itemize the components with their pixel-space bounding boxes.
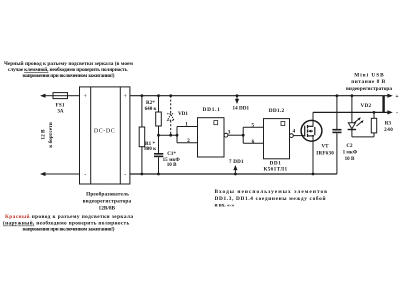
svg-text:DC-DC: DC-DC xyxy=(94,129,115,135)
node C1 bottom xyxy=(157,173,160,176)
label C1 15uF 10V xyxy=(163,151,181,168)
svg-text:6: 6 xyxy=(252,139,255,145)
fuse FS1 xyxy=(53,93,68,99)
node R1 bottom xyxy=(141,173,144,176)
wire gate to transistor xyxy=(293,135,305,137)
node 14 DD1 xyxy=(236,94,239,97)
svg-text:Mini USB: Mini USB xyxy=(354,73,384,79)
node RC xyxy=(157,134,160,137)
DC-DC converter module U1 xyxy=(80,87,130,184)
svg-text:Красный провод к разъему подсв: Красный провод к разъему подсветки зерка… xyxy=(5,213,133,220)
svg-text:+: + xyxy=(84,94,88,100)
node gate input join xyxy=(176,134,179,137)
svg-text:240: 240 xyxy=(384,127,393,133)
svg-text:7 DD1: 7 DD1 xyxy=(229,159,244,165)
node VD1 cathode xyxy=(169,94,172,97)
wire left bottom with arrow xyxy=(40,172,80,176)
svg-text:4: 4 xyxy=(292,128,295,134)
node R1 top xyxy=(141,94,144,97)
resistor R3 xyxy=(371,112,376,136)
svg-text:800 к: 800 к xyxy=(144,146,156,152)
svg-text:-: - xyxy=(124,173,126,179)
svg-text:VD2: VD2 xyxy=(361,103,372,109)
svg-text:DD1: DD1 xyxy=(270,160,282,166)
label DC-DC xyxy=(94,129,115,135)
svg-text:Входы неиспользуемых элемент: Входы неиспользуемых элементов xyxy=(215,189,328,195)
svg-text:+: + xyxy=(124,94,128,100)
svg-text:R3: R3 xyxy=(385,121,392,127)
wire drain to minus rail xyxy=(313,110,393,126)
svg-text:(наружный, необходимо проверит: (наружный, необходимо проверить полярнос… xyxy=(3,220,129,227)
svg-text:VD1: VD1 xyxy=(178,111,188,117)
node DD1.2 input join xyxy=(242,134,245,137)
note top-left xyxy=(4,60,133,79)
LED VD2 xyxy=(348,96,364,137)
wire LED to R3 xyxy=(352,136,374,138)
diode VD1 (dashed, optional) xyxy=(170,96,172,136)
svg-text:C2: C2 xyxy=(346,143,353,149)
note unused gates xyxy=(215,189,328,208)
node R2 top xyxy=(157,94,160,97)
wire bottom rail xyxy=(130,173,337,175)
svg-text:12В/8В: 12В/8В xyxy=(99,205,116,211)
svg-text:1: 1 xyxy=(185,121,188,127)
label R3 240 xyxy=(384,121,393,133)
capacitor C2 xyxy=(332,96,341,174)
logic gate DD1.1 (Schmitt NAND) xyxy=(198,118,228,157)
svg-text:к бортсети: к бортсети xyxy=(47,122,54,148)
note mini USB output xyxy=(346,73,392,92)
svg-text:DD1.2: DD1.2 xyxy=(269,108,285,114)
label C2 1uF 10V xyxy=(343,143,358,162)
resistor R2 xyxy=(156,96,162,136)
power pin 7 DD1 stub xyxy=(233,165,237,174)
wire node RC to gate inputs xyxy=(159,127,198,143)
svg-text:10 В: 10 В xyxy=(167,162,177,168)
wire source to ground rail xyxy=(312,136,314,174)
svg-text:Преобразователь: Преобразователь xyxy=(86,190,129,197)
capacitor C1 xyxy=(154,135,163,174)
svg-text:напряжения при включенном зажи: напряжения при включенном зажигании!) xyxy=(23,226,115,233)
label 12V to board net (rotated) xyxy=(40,122,54,148)
label R1 800k xyxy=(144,141,156,152)
svg-text:К561ТЛ1: К561ТЛ1 xyxy=(264,167,288,173)
svg-text:случае клеммной, необходимо пр: случае клеммной, необходимо проверить по… xyxy=(8,66,128,73)
label DD1 K561TL1 xyxy=(264,160,288,172)
svg-text:+: + xyxy=(395,94,399,100)
resistor R1 xyxy=(139,96,145,174)
svg-text:видеорегистратора: видеорегистратора xyxy=(346,86,392,92)
svg-text:видеорегистратора: видеорегистратора xyxy=(83,198,132,204)
svg-text:3: 3 xyxy=(228,129,231,135)
node C2 top xyxy=(336,94,339,97)
svg-text:VT: VT xyxy=(321,144,329,150)
node source xyxy=(312,173,315,176)
svg-text:12 В: 12 В xyxy=(40,129,46,140)
svg-text:14 DD1: 14 DD1 xyxy=(233,105,250,111)
svg-text:-: - xyxy=(396,110,398,116)
wire top rail +8V xyxy=(130,94,393,98)
svg-text:напряжения при включенном зажи: напряжения при включенном зажигании!) xyxy=(23,72,115,79)
label R2 640k xyxy=(145,100,157,112)
svg-text:5: 5 xyxy=(251,122,254,128)
svg-text:1 мкФ: 1 мкФ xyxy=(343,150,358,156)
svg-text:640 к: 640 к xyxy=(145,106,157,112)
node R3 top xyxy=(373,111,376,114)
svg-text:3А: 3А xyxy=(57,109,64,115)
svg-text:и вх. «-»: и вх. «-» xyxy=(215,203,235,209)
wire DD1.1 out to DD1.2 in xyxy=(228,127,264,143)
svg-text:2: 2 xyxy=(187,138,190,144)
node 7 DD1 xyxy=(234,173,237,176)
node VD1 anode xyxy=(169,134,172,137)
label VT IRF630 xyxy=(316,144,334,157)
svg-text:Черный провод к разъему подсве: Черный провод к разъему подсветки зеркал… xyxy=(4,60,133,67)
svg-text:10 В: 10 В xyxy=(345,156,355,162)
svg-text:DD1.1: DD1.1 xyxy=(203,107,221,113)
logic gate DD1.2 (Schmitt NAND) xyxy=(264,119,294,159)
label converter caption xyxy=(83,190,132,211)
transistor VT IRF630 xyxy=(301,120,322,141)
svg-text:IRF630: IRF630 xyxy=(316,150,334,156)
svg-text:-: - xyxy=(84,173,86,179)
note bottom-left xyxy=(3,213,133,232)
label FS1 3A xyxy=(56,103,65,115)
power pin 14 DD1 stub xyxy=(235,96,239,104)
node VD2 top xyxy=(351,94,354,97)
svg-text:питание 8 В: питание 8 В xyxy=(351,79,385,85)
wire left top with arrow to 12V xyxy=(40,94,80,98)
connector bar xyxy=(382,96,384,113)
svg-text:DD1.3, DD1.4 соединены между с: DD1.3, DD1.4 соединены между собой xyxy=(215,195,326,202)
label DC-DC terminals xyxy=(84,94,128,178)
